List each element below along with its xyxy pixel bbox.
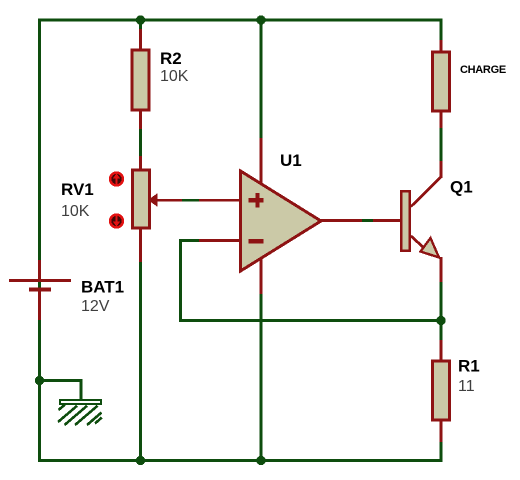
resistor R1 pins bbox=[440, 340, 443, 362]
resistor CHARGE pins bbox=[440, 40, 443, 52]
op-amp U1 power pin bottom bbox=[260, 257, 263, 294]
transistor Q1 base bar bbox=[401, 191, 409, 250]
wire plus input green segment bbox=[181, 199, 199, 202]
battery BAT1 long plate bbox=[9, 279, 71, 282]
transistor Q1 emitter line bbox=[411, 236, 424, 248]
node junction dot bottom RV1 bbox=[136, 456, 145, 465]
op-amp U1 output pin bbox=[318, 219, 362, 222]
ground bar bbox=[60, 400, 101, 404]
ground hatch bbox=[58, 405, 102, 426]
wire U1 power bottom green bbox=[260, 293, 263, 460]
wiper arrow bbox=[148, 193, 158, 207]
wire top rail bbox=[38, 19, 443, 22]
battery BAT1 short plate bbox=[29, 288, 51, 292]
resistor CHARGE bbox=[433, 52, 450, 111]
transistor Q1 collector diagonal bbox=[411, 177, 441, 207]
transistor Q1 emitter arrow bbox=[421, 238, 440, 258]
svg-text:CHARGE: CHARGE bbox=[460, 64, 506, 76]
op-amp minus symbol bbox=[249, 239, 264, 243]
button down RV1 bbox=[110, 215, 123, 228]
node junction dot emitter R1 bbox=[436, 316, 445, 325]
wire left rail bbox=[38, 19, 41, 463]
resistor R2 pins bbox=[139, 29, 142, 50]
op-amp U1 minus input pin bbox=[199, 239, 241, 242]
wire bottom rail bbox=[38, 459, 443, 462]
svg-text:10K: 10K bbox=[61, 203, 90, 220]
wire between R2 and RV1 green bbox=[139, 128, 142, 157]
wire feedback horizontal bbox=[179, 319, 442, 322]
op-amp U1 triangle bbox=[241, 171, 322, 271]
svg-text:10K: 10K bbox=[160, 68, 189, 85]
wiper wire red bbox=[155, 199, 182, 202]
op-amp U1 plus input pin bbox=[199, 199, 241, 202]
resistor R1 bbox=[433, 361, 450, 420]
wire R2 branch top green bbox=[139, 20, 142, 29]
transistor Q1 collector pin bbox=[440, 161, 443, 178]
transistor Q1 emitter pin bbox=[440, 257, 443, 282]
wire node to R1 green bbox=[440, 320, 443, 340]
wire feedback vertical bbox=[179, 239, 182, 321]
wire ground branch horizontal bbox=[38, 379, 82, 382]
potentiometer RV1 body bbox=[133, 170, 150, 228]
wire R1 bottom green bbox=[440, 441, 443, 461]
wire right column top (to CHARGE) bbox=[440, 19, 443, 41]
wire U1 power top green bbox=[260, 20, 263, 138]
wire ground stub vertical bbox=[80, 379, 83, 400]
svg-text:R1: R1 bbox=[458, 357, 480, 376]
wire CHARGE to Q1 collector green bbox=[440, 127, 443, 161]
svg-text:U1: U1 bbox=[280, 151, 302, 170]
svg-text:RV1: RV1 bbox=[61, 180, 94, 199]
node ground junction dot bbox=[35, 376, 44, 385]
transistor Q1 base pin bbox=[373, 219, 401, 222]
battery BAT1 pins bbox=[38, 260, 41, 280]
node junction dot top U1 bbox=[256, 15, 265, 24]
svg-text:BAT1: BAT1 bbox=[81, 278, 124, 297]
wire RV1 bottom to rail green bbox=[139, 261, 142, 460]
wire Q1 emitter to node green bbox=[440, 281, 443, 321]
potentiometer RV1 pins bbox=[139, 156, 142, 170]
button up RV1 bbox=[110, 173, 123, 186]
svg-text:12V: 12V bbox=[81, 298, 110, 315]
op-amp U1 power pin top bbox=[260, 138, 263, 184]
node junction dot bottom U1 bbox=[256, 456, 265, 465]
node junction dot top R2 bbox=[136, 15, 145, 24]
op-amp plus symbol bbox=[249, 193, 264, 208]
svg-text:11: 11 bbox=[458, 378, 475, 395]
svg-text:R2: R2 bbox=[160, 49, 182, 68]
svg-text:Q1: Q1 bbox=[450, 178, 473, 197]
wire output green segment bbox=[360, 219, 373, 222]
wire minus input green segment bbox=[180, 239, 199, 242]
resistor R2 bbox=[132, 50, 149, 110]
